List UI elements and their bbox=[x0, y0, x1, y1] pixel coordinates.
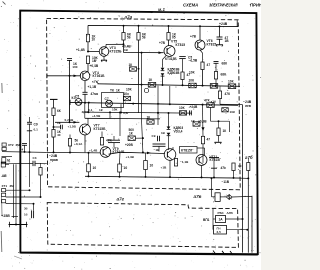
wire VT7 emitter down bbox=[84, 135, 86, 145]
wire VT11 emitter down bbox=[201, 166, 203, 178]
wire C8 to input line bbox=[29, 131, 31, 152]
wire rail to C4 bbox=[219, 26, 221, 36]
svg-text:47мк: 47мк bbox=[91, 92, 99, 96]
label -1.5V bbox=[189, 59, 198, 63]
capacitor C15 bars bbox=[32, 210, 34, 218]
svg-text:1В: 1В bbox=[92, 59, 97, 63]
wire y163 line bbox=[1, 163, 33, 165]
svg-text:4: 4 bbox=[21, 148, 24, 152]
svg-text:РБ4: РБ4 bbox=[218, 211, 224, 215]
capacitor C7 bbox=[61, 125, 63, 130]
svg-text:М: М bbox=[7, 159, 10, 163]
label 3b mark bbox=[24, 207, 28, 211]
resistor R26 crossed bbox=[222, 108, 229, 112]
svg-text:С5: С5 bbox=[75, 95, 79, 99]
svg-text:ЭЛЕКТРИЧЕСКАЯ: ЭЛЕКТРИЧЕСКАЯ bbox=[209, 2, 238, 7]
label +20V bbox=[125, 143, 133, 147]
junction R27b bbox=[218, 120, 220, 122]
junction rail x123 bbox=[123, 25, 125, 27]
junction y104 x202 bbox=[202, 104, 204, 106]
resistor R10 crossed bbox=[189, 83, 197, 88]
resistor R1 bbox=[86, 34, 89, 42]
svg-text:м.1: м.1 bbox=[158, 7, 165, 12]
wire C13 stem bbox=[213, 158, 215, 178]
svg-text:а7б: а7б bbox=[245, 154, 253, 160]
capacitor C4 bbox=[217, 37, 223, 39]
amp board dashed boundary A1 bbox=[47, 18, 241, 189]
wire x29 drop bbox=[29, 152, 31, 187]
svg-text:+7В: +7В bbox=[190, 35, 197, 39]
wire x170 mid bbox=[169, 86, 171, 104]
svg-text:47к: 47к bbox=[220, 166, 227, 170]
label VT9 bbox=[113, 147, 126, 154]
svg-text:1К: 1К bbox=[129, 131, 133, 135]
svg-text:+15В: +15В bbox=[1, 214, 10, 218]
label R10 bbox=[189, 79, 195, 83]
wire R19 up bbox=[88, 132, 102, 138]
wire input line y152 outside bbox=[2, 151, 47, 154]
resistor R9 crossed bbox=[148, 83, 156, 88]
resistor R18 bbox=[68, 139, 71, 147]
svg-text:1К: 1К bbox=[129, 63, 133, 67]
junction y177 x88 bbox=[88, 175, 90, 177]
wire x213 drop bbox=[212, 209, 214, 230]
wire x203 lower bbox=[202, 105, 205, 136]
resistor R28v bbox=[232, 163, 235, 171]
label node a1b bbox=[211, 100, 216, 104]
label R19 bbox=[106, 139, 112, 143]
wire F1 left stub bbox=[213, 218, 216, 220]
resistor R23 bbox=[144, 161, 148, 170]
label C13 bbox=[220, 166, 227, 170]
junction x142 y152 bbox=[142, 151, 144, 153]
label +1.1V bbox=[88, 85, 97, 89]
label +1.4V VT3 bbox=[76, 48, 85, 52]
wire rail to R4 bbox=[123, 26, 125, 33]
svg-text:С9: С9 bbox=[34, 123, 38, 127]
scan edge mark left-a bbox=[1, 83, 3, 93]
svg-text:С9: С9 bbox=[152, 134, 156, 138]
junction y177 x170 bbox=[169, 176, 171, 178]
label VT10 box bbox=[180, 147, 198, 154]
svg-text:68К: 68К bbox=[222, 62, 228, 66]
wire F1 right stub bbox=[226, 218, 243, 220]
label R24 bbox=[180, 160, 189, 164]
svg-text:100: 100 bbox=[72, 65, 77, 69]
junction x69 y122 bbox=[69, 121, 71, 123]
handwritten mark m1 bbox=[153, 7, 170, 12]
svg-text:−1,5В: −1,5В bbox=[189, 59, 198, 63]
junction fuse feed bbox=[211, 177, 213, 179]
capacitor C9 plates bbox=[108, 140, 120, 142]
svg-text:1К: 1К bbox=[191, 119, 195, 123]
junction y177 x145 bbox=[145, 176, 147, 178]
wire x138 lower bbox=[138, 84, 140, 113]
wire C5 to R8 bbox=[215, 63, 217, 71]
label R26 bbox=[230, 110, 235, 114]
junction rail x200 bbox=[199, 25, 201, 27]
arrow input signal bbox=[74, 75, 78, 78]
wire x142 lower bbox=[142, 119, 143, 153]
wire fuse feed stub bbox=[212, 196, 216, 198]
wire base VT10 bbox=[120, 152, 165, 153]
wire R23 up bbox=[145, 153, 147, 160]
wire VT10 emitter down bbox=[169, 160, 171, 177]
wire rail end stub bbox=[236, 20, 238, 26]
junction y152 x24 bbox=[24, 151, 26, 153]
capacitor C5a bbox=[179, 57, 186, 59]
junction x248 y178 bbox=[247, 177, 249, 179]
wire VT4 collector down bbox=[84, 81, 86, 92]
capacitor C12 bbox=[190, 110, 192, 115]
wire R7 down to rail bbox=[202, 70, 204, 86]
title text ПРИНЦИПИАЛЬНАЯ bbox=[250, 2, 272, 7]
arrow VT10 base bbox=[147, 152, 151, 155]
junction rail x138 bbox=[138, 25, 140, 27]
resistor R27 bbox=[201, 136, 204, 144]
svg-text:лев: лев bbox=[245, 104, 251, 108]
label C16 tick bbox=[21, 148, 24, 152]
svg-text:10: 10 bbox=[238, 164, 242, 168]
label C8 bbox=[34, 123, 38, 127]
svg-text:КД503В: КД503В bbox=[168, 71, 181, 75]
diode VD4 bbox=[167, 133, 171, 136]
label VT5 bbox=[171, 40, 185, 48]
wire pin2a bbox=[6, 189, 30, 191]
svg-text:1К: 1К bbox=[149, 78, 153, 82]
scan edge mark bottom-left bbox=[14, 256, 22, 259]
label XT1 bbox=[8, 143, 20, 147]
svg-text:56: 56 bbox=[127, 35, 131, 39]
connector pin XT1a bbox=[2, 143, 6, 146]
label R20 values bbox=[129, 128, 135, 135]
bottom border tick b bbox=[222, 251, 225, 255]
label C5a bbox=[188, 56, 192, 60]
svg-text:−11В: −11В bbox=[222, 180, 230, 184]
label +1.5V VT7 bbox=[68, 125, 77, 129]
junction F2 x247 bbox=[246, 229, 248, 231]
resistor R34 crossed bbox=[193, 122, 200, 126]
svg-text:С3: С3 bbox=[33, 156, 37, 160]
svg-text:6К: 6К bbox=[57, 109, 61, 113]
svg-text:СХЕМА: СХЕМА bbox=[183, 2, 198, 7]
wire R8 down bbox=[215, 79, 217, 86]
wire VT7e joins bbox=[84, 145, 86, 152]
wire rail to R6 bbox=[168, 26, 170, 33]
label R25 bbox=[225, 92, 231, 96]
resistor R21 crossed bbox=[147, 120, 154, 124]
junction y177 x201 bbox=[201, 176, 203, 178]
arrow VT5 base bbox=[159, 51, 163, 54]
resistor R15 crossed bbox=[207, 103, 215, 108]
wire x141 full bbox=[141, 53, 143, 119]
arrow x203 down bbox=[201, 127, 204, 131]
label 10K c bbox=[189, 71, 195, 75]
label C8 value bbox=[34, 128, 39, 132]
svg-text:10х: 10х bbox=[124, 92, 130, 96]
capacitor C2 bbox=[67, 59, 72, 61]
capacitor C6 tbar bbox=[50, 98, 58, 100]
label 3.6g bbox=[123, 111, 129, 115]
resistor R25 bbox=[218, 91, 221, 99]
svg-text:КТ815Г: КТ815Г bbox=[210, 158, 222, 162]
svg-text:−1В: −1В bbox=[154, 148, 161, 152]
svg-text:10К: 10К bbox=[112, 108, 117, 112]
svg-text:10К: 10К bbox=[189, 79, 195, 83]
svg-text:10К: 10К bbox=[228, 79, 234, 83]
label VD3 VD4 bbox=[174, 126, 184, 133]
svg-text:40: 40 bbox=[57, 133, 61, 137]
junction pin2a x29 bbox=[29, 189, 31, 191]
junction C13 bus bbox=[213, 177, 215, 179]
resistor R17 bbox=[52, 130, 55, 138]
svg-text:+7В: +7В bbox=[159, 41, 166, 45]
diode VD3 bbox=[167, 127, 171, 130]
resistor R19 bbox=[100, 138, 103, 146]
svg-text:10К: 10К bbox=[126, 88, 132, 92]
transistor VT10 bbox=[164, 149, 176, 161]
label a7g bbox=[117, 196, 125, 201]
label R6 bbox=[172, 32, 177, 39]
wire exit relay y195 bbox=[232, 195, 252, 198]
capacitor C13 lower bar bbox=[211, 167, 217, 169]
label R7 bbox=[207, 63, 211, 67]
wire fuse feed drop bbox=[211, 178, 213, 197]
junction rail x220 bbox=[219, 25, 221, 27]
label measure box bbox=[110, 89, 120, 93]
label C4 bbox=[225, 36, 230, 43]
wire R27b down bbox=[218, 136, 220, 142]
junction y85 x216 bbox=[215, 85, 217, 87]
svg-text:+20В: +20В bbox=[125, 143, 133, 147]
resistor R4 bbox=[122, 33, 125, 41]
junction stage2 node bbox=[123, 43, 125, 45]
svg-text:ХТ2: ХТ2 bbox=[8, 143, 14, 147]
svg-text:10: 10 bbox=[124, 166, 128, 170]
svg-text:ХТ1: ХТ1 bbox=[2, 184, 8, 188]
svg-text:1б: 1б bbox=[24, 213, 28, 217]
svg-text:ВП1: ВП1 bbox=[203, 218, 210, 222]
wire x121 row2 drop bbox=[120, 104, 122, 112]
label R29 bbox=[93, 166, 97, 170]
label R5 bbox=[142, 32, 147, 39]
label 1b mark bbox=[24, 213, 28, 217]
label H1 bbox=[75, 95, 79, 99]
wire R4 down bbox=[123, 40, 125, 44]
junction y85 x162 bbox=[162, 84, 164, 86]
rail104 left tick bbox=[69, 100, 71, 105]
junction y152 x55 bbox=[53, 151, 55, 153]
wire x13 bus bbox=[13, 164, 15, 218]
connector pin XT2c bbox=[2, 200, 6, 203]
transistor VT11 bbox=[196, 155, 207, 166]
svg-text:КТ361Б: КТ361Б bbox=[93, 74, 106, 78]
wire divider top bbox=[53, 99, 55, 108]
junction F1 x242 bbox=[242, 218, 244, 220]
capacitor C3 polarized bbox=[82, 92, 87, 94]
connector X1 arrows bbox=[226, 195, 232, 200]
wire VD34 up bbox=[168, 113, 170, 127]
label +24V c bbox=[190, 105, 198, 109]
svg-text:а7г: а7г bbox=[117, 196, 125, 201]
junction x29 y152 bbox=[29, 151, 31, 153]
label C3 bbox=[91, 92, 99, 96]
label H2 bbox=[105, 97, 109, 101]
svg-text:10: 10 bbox=[92, 37, 96, 41]
label R34 bbox=[191, 119, 195, 123]
wire out y104 to edge bbox=[220, 103, 240, 105]
wire vertical x242 bbox=[242, 105, 244, 253]
svg-text:47К: 47К bbox=[225, 92, 231, 96]
label R21 bbox=[147, 115, 151, 119]
junction y85 x141 bbox=[141, 84, 143, 86]
wire VT3 emitter down bbox=[103, 56, 105, 60]
label row2 vals bbox=[88, 108, 117, 113]
svg-text:0,2АВ: 0,2АВ bbox=[65, 118, 75, 122]
fuse FU1 box bbox=[215, 193, 220, 202]
svg-text:ПРИНЦИП: ПРИНЦИП bbox=[250, 2, 261, 7]
capacitor C14 bbox=[33, 161, 35, 166]
junction gnd x16 bbox=[15, 224, 17, 226]
svg-text:−1,1В: −1,1В bbox=[180, 160, 189, 164]
label R7a bbox=[187, 73, 191, 77]
svg-text:КТ815Г: КТ815Г bbox=[181, 149, 193, 153]
junction x158 y113 bbox=[157, 112, 159, 114]
wire rails2 upper bbox=[85, 112, 192, 113]
measure box outline bbox=[102, 93, 124, 108]
label +0.4V VT4 bbox=[90, 64, 99, 68]
svg-text:56: 56 bbox=[142, 35, 146, 39]
wire R30 up bbox=[119, 152, 122, 164]
resistor R20 crossed bbox=[128, 136, 135, 141]
label R23 bbox=[150, 164, 154, 168]
label R4 bbox=[127, 32, 132, 39]
wire R32v up bbox=[247, 158, 249, 163]
label R18 bbox=[74, 139, 83, 146]
wire node to base wire bbox=[123, 44, 125, 52]
svg-text:АВ: АВ bbox=[1, 174, 8, 178]
svg-text:10: 10 bbox=[150, 164, 154, 168]
wire R29 up bbox=[88, 153, 90, 164]
wire C15 stem bbox=[33, 204, 35, 210]
wire rails2 lower bbox=[85, 117, 160, 120]
label C5 bbox=[222, 62, 228, 66]
svg-text:к1: к1 bbox=[92, 80, 96, 84]
wire R18 up bbox=[69, 135, 71, 139]
label -24V left bbox=[49, 154, 58, 162]
label VT7 bbox=[94, 124, 107, 132]
resistor R29 bbox=[87, 164, 91, 172]
wire R5 down long bbox=[138, 40, 140, 84]
connector pin XT2b bbox=[2, 193, 6, 196]
wire R27 down bbox=[202, 144, 204, 163]
test point circle bbox=[144, 88, 148, 92]
outer frame border bbox=[20, 11, 258, 255]
resistor R11 crossed bbox=[210, 84, 218, 89]
capacitor C13 top bar bbox=[209, 157, 219, 159]
svg-text:10К: 10К bbox=[230, 110, 235, 114]
junction x120 y112 bbox=[119, 112, 121, 114]
resistor R7 bbox=[201, 62, 204, 70]
svg-text:КТ315Б: КТ315Б bbox=[94, 127, 107, 131]
wire C9 up bbox=[113, 136, 115, 140]
resistor R2 bbox=[86, 56, 89, 64]
svg-text:68К: 68К bbox=[221, 73, 227, 77]
transistor VT3 bbox=[99, 47, 109, 57]
resistor R14 crossed bbox=[124, 96, 131, 100]
label R27b bbox=[223, 129, 227, 133]
svg-text:3М: 3М bbox=[10, 184, 15, 188]
svg-text:1К: 1К bbox=[99, 108, 103, 112]
handwritten mark a7a bbox=[125, 14, 133, 19]
junction y104 x158 bbox=[157, 103, 159, 105]
resistor R30 bbox=[118, 164, 122, 172]
wire R16 to R17 bbox=[53, 116, 55, 130]
junction divider mid bbox=[53, 126, 55, 128]
resistor R5b crossed bbox=[130, 67, 137, 71]
wire x120 vertical bbox=[119, 113, 121, 137]
wire R28v down bbox=[233, 171, 235, 178]
wire VT6 emitter down bbox=[200, 50, 203, 62]
label R16 bbox=[57, 109, 61, 113]
label R27 bbox=[207, 138, 211, 142]
svg-text:47К: 47К bbox=[204, 99, 210, 103]
svg-text:а7в: а7в bbox=[194, 194, 202, 199]
label +1.4V mid bbox=[126, 155, 135, 159]
label R2 bbox=[92, 56, 99, 63]
wire VT9 base bbox=[101, 142, 103, 148]
svg-text:КТ315Б: КТ315Б bbox=[110, 49, 123, 53]
resistor R12 crossed bbox=[228, 84, 236, 89]
resistor R27b bbox=[217, 128, 220, 136]
label R5b bbox=[129, 63, 133, 67]
wire C14 right bbox=[35, 162, 47, 164]
wire R20 lead bbox=[135, 137, 143, 139]
junction rails2 a bbox=[109, 111, 111, 113]
label R14 bbox=[124, 92, 130, 96]
bottom border tick c bbox=[230, 251, 233, 255]
svg-text:+24В: +24В bbox=[219, 22, 228, 26]
label VT4 bbox=[93, 71, 106, 78]
wire rail x216 up bbox=[215, 80, 217, 86]
wire R17 down to y152 bbox=[53, 137, 55, 152]
wire R33 down bbox=[40, 175, 42, 197]
capacitor C8 bottom bar bbox=[27, 130, 32, 132]
label K mark bbox=[72, 96, 76, 100]
wire C2 column lower bbox=[69, 76, 71, 123]
resistor R16 bbox=[52, 108, 55, 116]
wire rail to R5 bbox=[138, 26, 140, 33]
label -11V right bbox=[222, 180, 230, 184]
svg-text:47: 47 bbox=[207, 63, 211, 67]
svg-text:1К: 1К bbox=[116, 89, 120, 93]
wire VT9 emitter right bbox=[109, 152, 121, 154]
svg-text:10: 10 bbox=[93, 166, 97, 170]
label +1.5V row2 bbox=[92, 114, 101, 118]
junction R14 rail bbox=[132, 103, 134, 105]
label 400A bbox=[82, 110, 90, 114]
wire VT5 emitter down bbox=[163, 56, 167, 68]
svg-text:+1,4В: +1,4В bbox=[89, 148, 98, 152]
junction x168 y113 bbox=[168, 112, 170, 114]
title text ЭЛЕКТРИЧЕСКАЯ bbox=[209, 2, 238, 7]
svg-text:1К: 1К bbox=[147, 115, 151, 119]
label C2 bbox=[72, 62, 78, 69]
label C10 bbox=[152, 131, 166, 138]
svg-text:3б: 3б bbox=[24, 207, 28, 211]
connector blob y164 bbox=[1, 162, 9, 167]
wire C3 down to mid rail bbox=[84, 94, 86, 103]
